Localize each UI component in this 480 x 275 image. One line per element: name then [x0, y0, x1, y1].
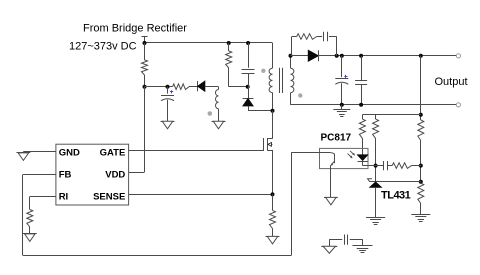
svg-text:GND: GND: [59, 147, 80, 158]
svg-text:From Bridge Rectifier: From Bridge Rectifier: [83, 22, 187, 34]
svg-text:VDD: VDD: [105, 169, 125, 180]
svg-text:SENSE: SENSE: [93, 191, 125, 202]
svg-text:Output: Output: [435, 76, 468, 88]
svg-text:GATE: GATE: [100, 147, 126, 158]
svg-text:RI: RI: [59, 191, 68, 202]
svg-text:TL431: TL431: [381, 190, 411, 202]
svg-text:127~373v DC: 127~373v DC: [69, 41, 137, 53]
svg-text:PC817: PC817: [321, 133, 352, 144]
svg-text:FB: FB: [59, 169, 72, 180]
